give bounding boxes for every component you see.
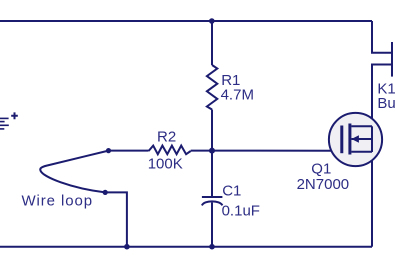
buzzer K1 [391,42,393,77]
wire R2 to node [191,150,212,152]
node: wire loop top [106,148,111,153]
svg-text:2N7000: 2N7000 [297,176,350,193]
wire loop [40,151,108,193]
wire node to Q1 gate [212,150,340,152]
node: gate node junction [209,148,215,154]
node: loop bottom rail junction [124,244,130,250]
capacitor C1 [202,197,223,205]
svg-text:R2: R2 [157,128,176,145]
wire R1 top lead [211,21,213,65]
svg-text:4.7M: 4.7M [221,87,254,104]
wire C1 bottom lead [211,203,213,247]
wire Q1 source to bottom rail [371,152,373,247]
svg-text:0.1uF: 0.1uF [222,203,260,220]
battery [0,112,18,128]
transistor Q1 2N7000 [329,113,382,166]
wire C1 top lead [211,151,213,197]
wire buzzer top lead [372,21,392,53]
node: C1 bottom rail junction [209,244,215,250]
wire buzzer bottom lead to Q1 drain [372,65,392,127]
svg-text:Wire loop: Wire loop [22,193,93,210]
wire R1 bottom lead [211,110,213,151]
svg-text:Bu: Bu [377,95,395,112]
svg-text:Q1: Q1 [311,161,331,178]
wire bottom rail [0,246,372,248]
node: wire loop bottom [103,190,108,195]
wire loop to R2 lead [109,150,149,152]
svg-text:C1: C1 [222,183,241,200]
wire loop to bottom rail [105,192,127,246]
svg-text:100K: 100K [148,156,183,173]
resistor R1 [207,65,217,110]
node: R1 top junction [209,18,215,24]
resistor R2 [149,146,191,155]
wire top rail [0,20,372,22]
